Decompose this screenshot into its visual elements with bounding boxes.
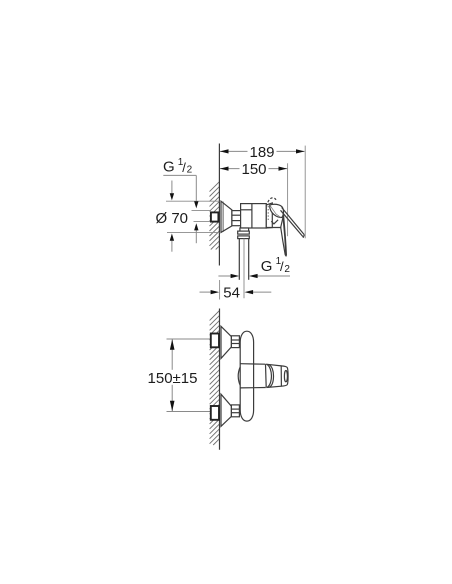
knob end face ellipse bbox=[284, 371, 287, 382]
square inlet fitting in wall bbox=[211, 212, 219, 221]
svg-text:G: G bbox=[261, 258, 273, 275]
lever head bbox=[270, 204, 284, 217]
svg-text:150±15: 150±15 bbox=[148, 370, 198, 387]
dimension 189 extension line (right, at lever tip) bbox=[304, 146, 306, 239]
label 150 bbox=[240, 162, 269, 175]
dimension 54 left extension line bbox=[219, 280, 221, 300]
handle base lines crossing capsule bbox=[240, 363, 265, 366]
extension line B (supply pipe top) bbox=[192, 210, 212, 212]
outlet nut band 1 bbox=[238, 231, 250, 234]
cartridge band bbox=[266, 203, 272, 228]
extension line C (supply pipe bottom) bbox=[194, 220, 212, 222]
outlet pipe centerline / 54 extension bbox=[243, 239, 245, 299]
svg-text:/: / bbox=[182, 160, 186, 175]
outlet pipe bbox=[238, 239, 240, 280]
lever blade bbox=[281, 216, 287, 256]
bottom square fitting bbox=[211, 406, 219, 420]
top escutcheon (front view) bbox=[221, 326, 231, 358]
body bottom skirt line bbox=[266, 227, 280, 230]
G1/2 leader vertical with down arrow bbox=[195, 175, 197, 201]
dim 150±15 vertical line bbox=[171, 339, 173, 370]
wall face line bbox=[218, 144, 220, 266]
label 189 bbox=[248, 145, 277, 158]
svg-text:2: 2 bbox=[284, 264, 290, 275]
handle base left face bbox=[265, 364, 268, 387]
svg-text:G: G bbox=[163, 159, 175, 176]
G1/2 leader underline bbox=[163, 174, 196, 176]
svg-text:54: 54 bbox=[223, 285, 240, 302]
Ø70 dimension upper arrow bbox=[171, 181, 173, 194]
dimension 189 line bbox=[220, 150, 305, 152]
G1/2 leader: left arrow pointing right at pipe bbox=[218, 275, 231, 277]
dim 150±15 top extension line bbox=[167, 338, 211, 340]
top connection nut bbox=[231, 336, 239, 348]
outlet nut band 2 bbox=[238, 236, 250, 239]
wall face line bbox=[219, 309, 221, 450]
valve body bbox=[241, 204, 267, 228]
connection nut bbox=[232, 211, 241, 226]
G1/2 up arrow below pipe bbox=[195, 230, 197, 243]
grip outline bbox=[266, 364, 281, 366]
wall hatching (bottom view wall) bbox=[210, 311, 220, 446]
dim 150±15 bottom extension line bbox=[167, 411, 211, 413]
extension line D (escutcheon bottom edge) bbox=[167, 231, 219, 233]
bottom escutcheon (front view) bbox=[221, 394, 231, 426]
body capsule bbox=[240, 331, 253, 421]
escutcheon (side view cone) bbox=[221, 201, 232, 232]
economy notch V mark bbox=[271, 220, 278, 224]
dimension 150 extension line (right, handle cap) bbox=[287, 163, 289, 236]
lever arm bbox=[282, 208, 305, 235]
bottom connection nut bbox=[231, 405, 239, 417]
svg-text:2: 2 bbox=[187, 165, 193, 176]
dimension 54 left arrow bbox=[200, 291, 212, 293]
svg-text:/: / bbox=[280, 259, 284, 274]
handle far-side arc (left of capsule) bbox=[238, 367, 240, 386]
knob end bbox=[281, 366, 288, 386]
svg-text:150: 150 bbox=[241, 161, 266, 178]
extension line A (escutcheon top edge) bbox=[166, 200, 219, 202]
svg-text:189: 189 bbox=[249, 144, 274, 161]
svg-text:Ø 70: Ø 70 bbox=[156, 210, 189, 227]
outlet neck bbox=[240, 228, 249, 231]
wall hatching (top view wall) bbox=[210, 182, 220, 250]
label 150±15 bbox=[147, 370, 199, 384]
escutcheon flange inner line bbox=[222, 202, 224, 232]
top square fitting bbox=[211, 334, 219, 348]
grip left ellipse arcs bbox=[267, 364, 272, 387]
lever raised position (dashed arc) bbox=[268, 198, 277, 203]
Ø70 dimension lower arrow bbox=[171, 241, 173, 252]
G1/2 leader: right arrow pointing left at pipe bbox=[257, 275, 290, 277]
dimension 150 line bbox=[220, 168, 288, 170]
dimension 54 right arrow bbox=[253, 291, 272, 293]
